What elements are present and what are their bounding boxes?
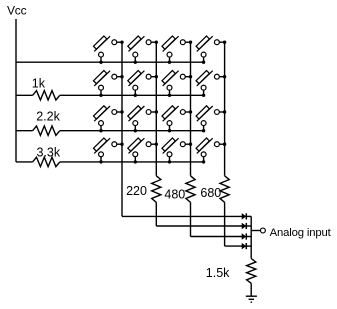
svg-text:1.5k: 1.5k: [206, 266, 230, 280]
wire column 2 upper: [155, 42, 157, 176]
wire column 4 upper: [224, 42, 226, 176]
resistor R4 1.5k: [247, 259, 256, 284]
svg-text:480: 480: [164, 188, 185, 202]
wire row 2 left lead: [16, 94, 33, 96]
svg-text:680: 680: [200, 186, 221, 200]
wire column 4 lower (to diode D4): [224, 202, 226, 246]
resistor 480 ohm (column 3): [186, 176, 195, 203]
switch S43 (pushbutton row 4 col 3): [162, 138, 192, 164]
wire row 3 (resistor to switches): [60, 130, 204, 132]
svg-text:Analog input: Analog input: [270, 227, 332, 239]
svg-text:3.3k: 3.3k: [37, 146, 61, 160]
resistor R3 3.3k: [33, 157, 60, 166]
diode D4: [242, 243, 246, 248]
terminal circle Analog input: [260, 228, 265, 233]
switch S23 (pushbutton row 2 col 3): [162, 71, 192, 98]
wire row 1 (Vcc to switch row 1): [16, 61, 204, 63]
resistor 680 ohm (column 4): [220, 176, 229, 203]
node Analog input tap: [251, 230, 260, 232]
diode D2: [242, 223, 246, 228]
wire column 3 lower (to diode D3): [190, 202, 192, 236]
wire row 4 (resistor to switches): [60, 161, 204, 163]
svg-text:220: 220: [126, 184, 147, 198]
switch S42 (pushbutton row 4 col 2): [128, 138, 158, 164]
wire row 2 (resistor to switches): [60, 94, 204, 96]
wire column 3 upper: [190, 42, 192, 176]
svg-text:1k: 1k: [32, 77, 46, 91]
switch S41 (pushbutton row 4 col 1): [94, 138, 124, 164]
svg-text:2.2k: 2.2k: [36, 110, 60, 124]
switch S21 (pushbutton row 2 col 1): [94, 71, 124, 98]
diode D1: [242, 214, 246, 219]
wire column 1 (to diode D1): [121, 42, 123, 216]
svg-text:Vcc: Vcc: [7, 4, 27, 18]
switch S22 (pushbutton row 2 col 2): [128, 71, 158, 98]
switch S13 (pushbutton row 1 col 3): [162, 36, 192, 64]
diode D3: [242, 234, 246, 239]
switch S12 (pushbutton row 1 col 2): [128, 36, 158, 64]
resistor 220 ohm (column 2): [152, 176, 161, 203]
resistor R2 2.2k: [33, 126, 60, 135]
switch S14 (pushbutton row 1 col 4): [196, 36, 226, 64]
switch S33 (pushbutton row 3 col 3): [162, 106, 192, 133]
resistor R1 1k: [33, 91, 60, 100]
Vcc supply rail (vertical): [15, 19, 17, 162]
ground: [246, 295, 257, 297]
switch S34 (pushbutton row 3 col 4): [196, 106, 226, 133]
switch S32 (pushbutton row 3 col 2): [128, 106, 158, 133]
wire column 2 lower (to diode D2): [155, 202, 157, 226]
switch S31 (pushbutton row 3 col 1): [94, 106, 124, 133]
switch S24 (pushbutton row 2 col 4): [196, 71, 226, 98]
switch S11 (pushbutton row 1 col 1): [94, 36, 124, 64]
switch S44 (pushbutton row 4 col 4): [196, 138, 226, 164]
wire to ground: [250, 283, 252, 295]
wire row 4 left lead: [16, 161, 33, 163]
wire summing bus: [250, 216, 252, 258]
wire row 3 left lead: [16, 130, 33, 132]
